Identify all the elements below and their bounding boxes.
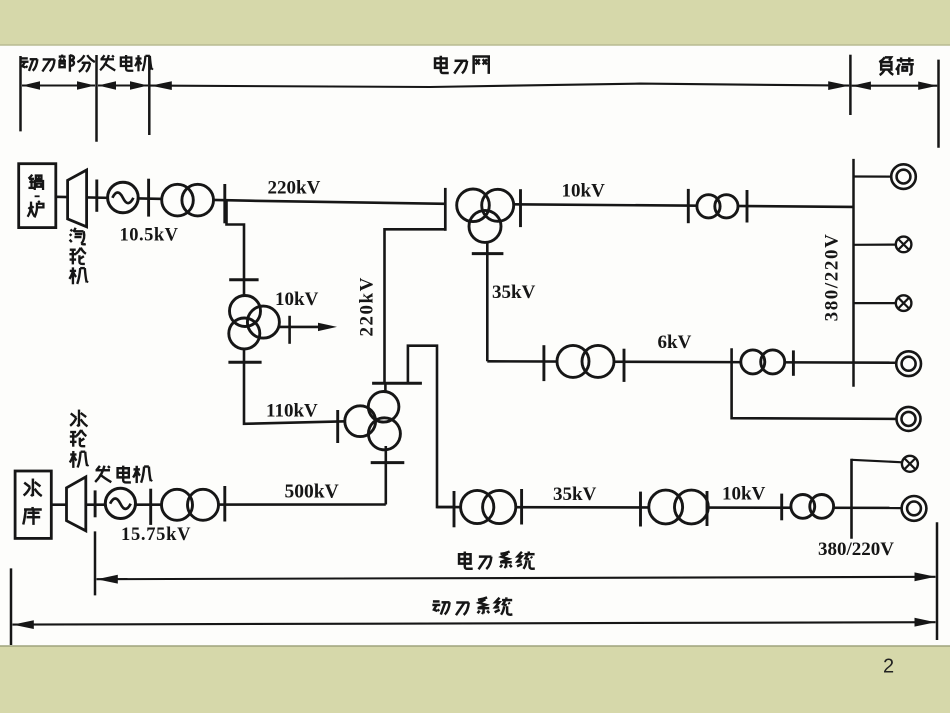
three-winding transformer TW2 (229, 296, 280, 350)
reservoir box 水库 (15, 471, 51, 538)
three-winding transformer TW1 (457, 189, 514, 242)
transformer T7 (6kV small) (741, 350, 785, 374)
lamp load B (896, 295, 912, 311)
water turbine symbol (67, 477, 86, 531)
junction bar 380/220V (850, 459, 853, 539)
wire: lamp branch at 380V (852, 460, 903, 463)
dimension bar (动力部分/发电机 boundary) (95, 55, 98, 142)
bus bar above TW3 (372, 383, 422, 394)
wire: 35kV row main line (437, 506, 902, 509)
wire: drop from 220kV line down to transformer TW2 (227, 200, 245, 296)
label 电力网 (435, 56, 489, 74)
svg-text:15.75kV: 15.75kV (121, 525, 191, 545)
dimension bar 负荷 right (937, 60, 940, 148)
dimension arrow span 发电机 (98, 81, 148, 89)
bus tick right of T7 (792, 350, 795, 375)
steam turbine symbol (68, 170, 87, 227)
svg-text:10kV: 10kV (275, 289, 319, 310)
right distribution bus (vertical) (852, 159, 855, 387)
bus tick right of T6 (623, 349, 626, 382)
dimension bar 电力系统 left (94, 531, 97, 595)
motor load M2 (6kV row end) (896, 351, 921, 376)
wire: generator row 1 main line to 220kV bus (56, 197, 446, 204)
wire: 10kV line to right bus (513, 204, 854, 207)
svg-text:380/220V: 380/220V (821, 233, 842, 322)
transformer T4 (35/10kV) (649, 490, 709, 524)
label 发电机 (top) (100, 55, 153, 71)
bus tick at G2 left (94, 490, 97, 517)
svg-text:10kV: 10kV (722, 484, 766, 505)
bus bar below TW3 (371, 461, 405, 464)
TW2 tertiary tap wire with arrow (278, 316, 337, 344)
generator G2 (15.75kV) (105, 488, 135, 518)
bus tick right of T4 (706, 491, 709, 526)
transformer T5 (10/0.38kV) (791, 495, 834, 519)
wire: staircase from TW3 bus to 35kV row (408, 346, 455, 507)
bus tick 6kV row left (542, 345, 545, 381)
three-winding transformer TW3 (345, 392, 401, 450)
wire: branch to lamp B (854, 302, 897, 304)
bus bar at TW1 left (220kV bus) (444, 188, 447, 231)
svg-text:220kV: 220kV (356, 276, 377, 336)
transformer T3 (500/35kV) (461, 490, 516, 523)
bottom khaki banner (0, 647, 950, 713)
dimension bar 动力系统 left (10, 568, 13, 645)
bus bar above TW2 (229, 278, 258, 281)
label 水轮机 (70, 410, 88, 468)
dimension arrow span 动力系统 (13, 618, 936, 629)
generator G1 (10.5kV) (108, 182, 139, 213)
dimension arrow span 负荷 (852, 82, 938, 90)
bus tick left of T4 (639, 492, 642, 527)
motor load M4 (top right) (891, 164, 916, 189)
transformer T6 (35/6kV) (557, 345, 614, 377)
svg-text:35kV: 35kV (553, 484, 597, 505)
top khaki banner (0, 0, 950, 45)
dimension bar 电力网 right / 负荷 left (849, 55, 852, 115)
svg-text:110kV: 110kV (266, 401, 318, 422)
transformer T1 (two windings) (162, 184, 214, 216)
label 发电机 (hydro) (95, 466, 152, 483)
bus tick right of T2 (223, 486, 226, 522)
dimension bar (发电机/电力网 boundary) (148, 57, 151, 136)
transformer T8 (10/0.38kV) (697, 195, 738, 218)
label 电力系统 (459, 551, 535, 569)
bus tick between G2 and T2 (149, 489, 152, 525)
wire: 35kV stem from TW1 down (486, 242, 489, 361)
transformer T2 (two windings) (162, 489, 219, 520)
dimension arrow span 电力网 (151, 81, 850, 90)
bus tick 35kV row left (453, 491, 456, 527)
bus tick right of T8 (746, 190, 749, 223)
bus tick left of T5 (780, 494, 783, 521)
wire: 220kV tie line (vertical) with top jog to bus (385, 229, 446, 383)
bus bar below TW2 (228, 361, 261, 364)
svg-text:380/220V: 380/220V (818, 539, 894, 560)
svg-text:35kV: 35kV (492, 282, 536, 303)
svg-text:500kV: 500kV (285, 482, 339, 503)
boiler box 锅炉 (19, 164, 56, 228)
wire: branch to lamp A (854, 244, 897, 246)
svg-text:220kV: 220kV (268, 178, 321, 199)
bus tick right of TW1 (519, 189, 522, 227)
svg-text:6kV: 6kV (658, 332, 692, 353)
wire: TW3 bottom stem to 500kV line (384, 446, 387, 505)
bus bar below TW1 (472, 252, 504, 255)
bus tick at generator G1 left (95, 180, 98, 212)
wire: 6kV row main line (487, 361, 896, 362)
label 动力部分 (21, 55, 95, 72)
svg-text:10.5kV: 10.5kV (120, 225, 179, 245)
bus tick right of T3 (520, 489, 523, 525)
svg-text:10kV: 10kV (562, 181, 606, 202)
wire: branch to motor M4 (854, 175, 892, 177)
dimension arrow span 动力部分 (22, 81, 95, 89)
label 汽轮机 (69, 228, 87, 285)
lamp load (380V) (902, 456, 918, 472)
lamp load A (896, 237, 912, 253)
bus tick between G1 and transformer T1 (147, 179, 150, 217)
wire: TW2 down + 110kV line to TW3 (244, 348, 346, 424)
junction bar + drop on 6kV row (732, 348, 897, 419)
svg-text:2: 2 (883, 656, 894, 678)
bus tick left of T8 (687, 189, 690, 223)
motor load M1 (35kV row end) (902, 496, 927, 521)
wire: hydro row / 500kV line (51, 503, 386, 506)
label 动力系统 (432, 597, 512, 615)
bus tick on 110kV line (336, 410, 339, 443)
motor load M3 (6kV lower branch) (897, 407, 921, 431)
bus tick right of T1 (223, 184, 226, 223)
dimension bar left (动力部分 left boundary) (19, 56, 22, 131)
label 负荷 (879, 57, 914, 75)
dimension bar right (shared) (936, 522, 939, 640)
dimension arrow span 电力系统 (97, 572, 936, 583)
